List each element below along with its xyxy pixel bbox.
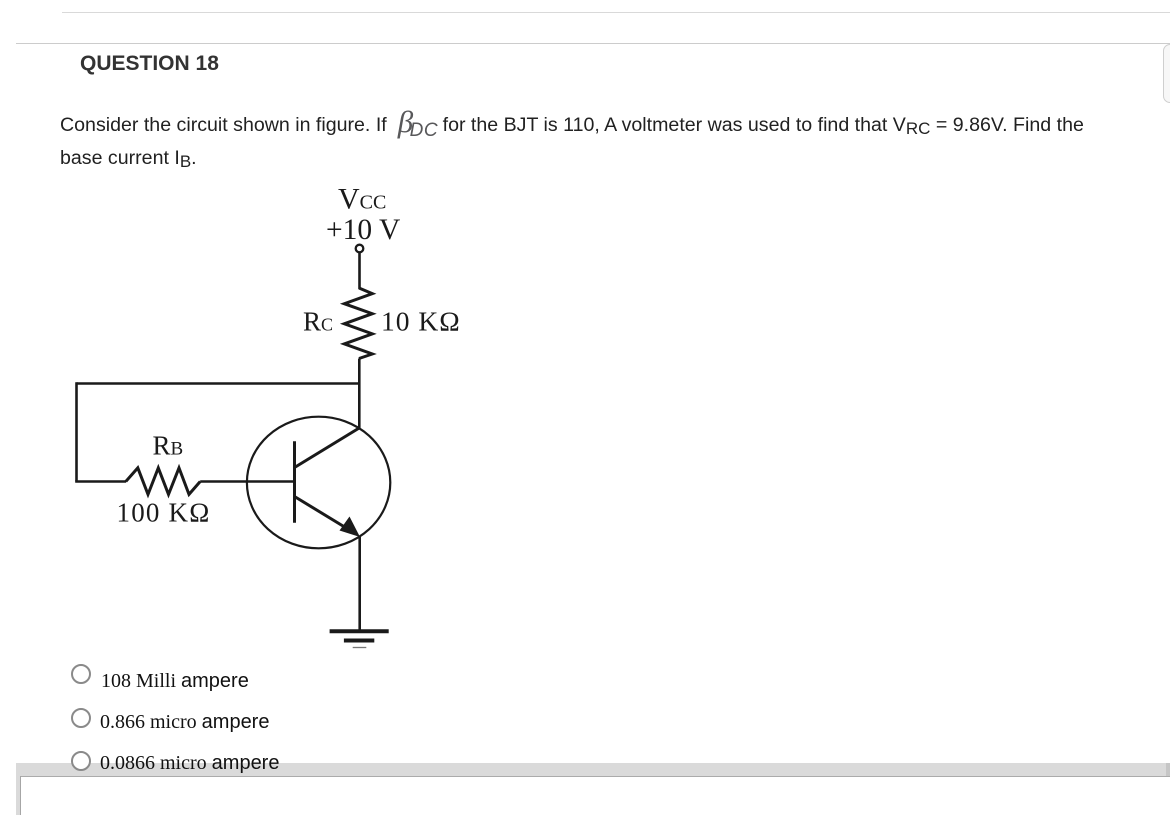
answer option 2 radio (71, 708, 91, 728)
answer option 1 text (101, 670, 249, 693)
heading QUESTION 18 (80, 52, 219, 76)
resistor RB (126, 468, 200, 495)
top light divider line (62, 12, 1170, 13)
emitter wire down (358, 536, 361, 632)
svg-text:10 KΩ: 10 KΩ (381, 305, 461, 336)
section divider line (16, 43, 1170, 44)
transistor emitter lead (295, 497, 353, 532)
svg-text:RB: RB (153, 431, 184, 461)
Vcc terminal (356, 245, 364, 253)
answer option 3 text (100, 752, 279, 775)
answer option 3 radio (71, 751, 91, 771)
bottom panel border left (20, 776, 21, 815)
bottom scrollbar right button (1166, 763, 1170, 776)
transistor collector lead (295, 428, 361, 468)
answer option 2 text (100, 711, 269, 734)
wire Rc to collector junction (358, 359, 361, 429)
wire to RB (75, 480, 126, 483)
wire feedback top (77, 382, 360, 385)
svg-text:+10 V: +10 V (326, 214, 400, 246)
ground bar 2 (344, 639, 374, 643)
transistor Q1 body (247, 417, 390, 549)
wire RB to base (200, 480, 294, 483)
bottom panel left strip (16, 776, 20, 815)
transistor base bar (293, 441, 296, 523)
svg-text:VCC: VCC (338, 183, 386, 216)
answer option 1 radio (71, 664, 91, 684)
svg-text:100 KΩ: 100 KΩ (117, 497, 211, 527)
scrollbar thumb top-right (1163, 44, 1170, 103)
bottom panel border top (20, 776, 1170, 777)
transistor emitter arrowhead (340, 517, 361, 538)
bottom gray band (16, 763, 1170, 776)
svg-text:RC: RC (303, 306, 333, 336)
wire feedback left vertical (75, 382, 78, 481)
wire Vcc to Rc (358, 253, 361, 289)
resistor RC (344, 288, 372, 359)
question text line 1 (60, 103, 1084, 139)
ground bar 1 (330, 629, 389, 633)
question text line 2 (60, 147, 197, 170)
ground bar 3 (353, 647, 367, 649)
